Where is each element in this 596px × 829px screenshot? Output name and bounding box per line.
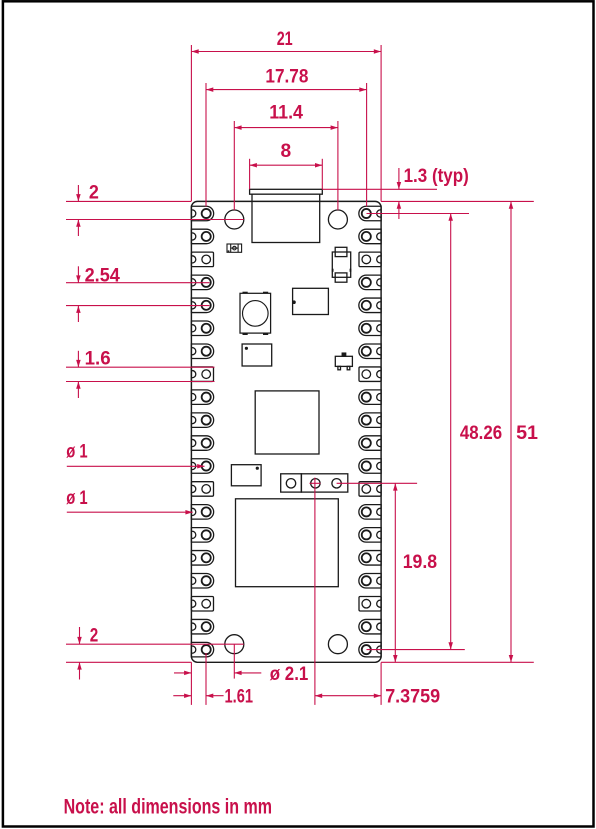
svg-text:1.61: 1.61 xyxy=(225,685,254,707)
mounting hole top-right xyxy=(328,210,347,229)
svg-text:1.3 (typ): 1.3 (typ) xyxy=(404,165,469,187)
BOOTSEL button SW1 xyxy=(243,292,248,295)
dimension 21 (board width) xyxy=(190,45,192,201)
pad pin 16 (left row 16) xyxy=(191,551,213,566)
dimension 2 (top edge to mount hole) xyxy=(66,200,191,202)
svg-text:17.78: 17.78 xyxy=(265,66,308,88)
dimension 1.6 (pad height) xyxy=(66,366,215,368)
pad pin 39 (right row 2) xyxy=(359,229,381,244)
pad pin 30 (right row 11) xyxy=(359,436,381,451)
svg-text:51: 51 xyxy=(516,422,538,444)
dimension diameter 1 (castellation) xyxy=(67,511,184,513)
pad pin 40 (right row 1) xyxy=(359,206,381,221)
dimension 17.78 (pin column span) xyxy=(205,83,207,206)
dimension 7.3759 (debug header offset) xyxy=(314,478,316,705)
pad pin 25 (right row 16) xyxy=(359,551,381,566)
pad pin 22 (right row 19) xyxy=(359,619,381,634)
pad pin 10 (left row 10) xyxy=(191,413,213,428)
pad pin 23 (right row 18) xyxy=(359,596,381,611)
svg-text:1.6: 1.6 xyxy=(85,348,111,370)
dimension 51 (board length) xyxy=(381,661,534,663)
USB connector body xyxy=(252,194,320,242)
pad pin 11 (left row 11) xyxy=(191,436,213,451)
pad pin 38 (right row 3) xyxy=(359,252,381,267)
dimension 48.26 (pin row span) xyxy=(367,213,470,215)
pad pin 26 (right row 15) xyxy=(359,528,381,543)
wireless module U5 xyxy=(236,499,339,587)
dimension diameter 2.1 (mount hole) xyxy=(233,644,235,678)
svg-text:48.26: 48.26 xyxy=(460,422,502,444)
pad pin 29 (right row 12) xyxy=(359,459,381,474)
pad pin 24 (right row 17) xyxy=(359,574,381,589)
svg-text:2.54: 2.54 xyxy=(85,265,120,287)
pad pin 4 (left row 4) xyxy=(191,275,213,290)
mounting hole bottom-left xyxy=(225,635,244,654)
microcontroller U1 RP2040 xyxy=(255,391,319,454)
pad pin 12 (left row 12) xyxy=(191,459,213,474)
pad pin 15 (left row 15) xyxy=(191,528,213,543)
svg-text:ø 1: ø 1 xyxy=(66,487,88,509)
node debug header cross xyxy=(310,482,321,484)
pad pin 18 (left row 18) xyxy=(191,596,213,611)
pad pin 20 (left row 20) xyxy=(191,642,213,657)
svg-text:Note: all dimensions in mm: Note: all dimensions in mm xyxy=(64,795,272,818)
dimension 2 (bottom edge to mount hole) xyxy=(66,643,244,645)
mounting hole top-left xyxy=(225,210,244,229)
dimension 2.54 (pin pitch) xyxy=(66,282,210,284)
board outline xyxy=(191,201,381,662)
dimension diameter 1 (through hole) xyxy=(67,465,196,467)
svg-text:ø 1: ø 1 xyxy=(66,440,88,462)
chip U3 xyxy=(242,344,272,366)
pad pin 34 (right row 7) xyxy=(359,344,381,359)
svg-text:8: 8 xyxy=(280,140,291,162)
dimension 11.4 (mount hole span) xyxy=(233,121,235,210)
crystal Y1 xyxy=(332,252,350,277)
pad pin 31 (right row 10) xyxy=(359,413,381,428)
debug pad square xyxy=(281,474,302,492)
regulator U2 xyxy=(293,288,329,314)
pad pin 8 (left row 8) xyxy=(191,367,213,382)
pad pin 7 (left row 7) xyxy=(191,344,213,359)
pad pin 27 (right row 14) xyxy=(359,505,381,520)
pad pin 14 (left row 14) xyxy=(191,505,213,520)
pad pin 17 (left row 17) xyxy=(191,574,213,589)
pad pin 36 (right row 5) xyxy=(359,298,381,313)
pad pin 5 (left row 5) xyxy=(191,298,213,313)
svg-text:19.8: 19.8 xyxy=(403,551,438,573)
pad pin 35 (right row 6) xyxy=(359,321,381,336)
pad pin 1 (left row 1) xyxy=(191,206,213,221)
svg-text:2: 2 xyxy=(90,625,99,647)
flash chip U4 xyxy=(231,465,261,486)
dimension 19.8 (debug header from bottom) xyxy=(337,482,418,484)
pad pin 33 (right row 8) xyxy=(359,367,381,382)
LED D1 xyxy=(227,244,242,252)
debug header J1 xyxy=(301,474,347,492)
mounting hole bottom-right xyxy=(328,635,347,654)
pad pin 21 (right row 20) xyxy=(359,642,381,657)
USB connector flange xyxy=(250,189,323,194)
pad pin 13 (left row 13) xyxy=(191,482,213,497)
svg-text:7.3759: 7.3759 xyxy=(385,685,440,707)
dimension 8 (USB width) xyxy=(249,159,251,190)
pad pin 2 (left row 2) xyxy=(191,229,213,244)
pad pin 32 (right row 9) xyxy=(359,390,381,405)
pad pin 6 (left row 6) xyxy=(191,321,213,336)
pad pin 9 (left row 9) xyxy=(191,390,213,405)
svg-text:21: 21 xyxy=(277,28,293,50)
pad pin 3 (left row 3) xyxy=(191,252,213,267)
pad pin 19 (left row 19) xyxy=(191,619,213,634)
svg-text:2: 2 xyxy=(89,181,99,203)
pad pin 37 (right row 4) xyxy=(359,275,381,290)
pad pin 28 (right row 13) xyxy=(359,482,381,497)
transistor Q1 (SOT-23) xyxy=(335,356,352,366)
dimension 1.61 (edge to hole center) xyxy=(190,662,192,705)
svg-text:ø 2.1: ø 2.1 xyxy=(270,663,309,685)
svg-text:11.4: 11.4 xyxy=(269,101,303,123)
dimension 1.3 (typ) USB overhang xyxy=(322,188,437,190)
